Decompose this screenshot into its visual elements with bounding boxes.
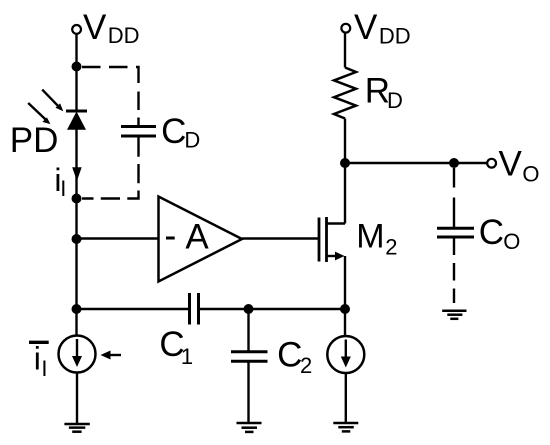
wire stub above CD xyxy=(137,118,139,128)
svg-text:M: M xyxy=(356,218,384,256)
svg-text:O: O xyxy=(522,161,539,186)
terminal VDD (top-right) xyxy=(341,24,350,33)
wire photodiode to bottom node xyxy=(75,130,77,199)
svg-text:i: i xyxy=(34,341,41,377)
current source (right) circle xyxy=(327,336,364,373)
current source iI arrow xyxy=(72,339,82,367)
svg-text:2: 2 xyxy=(300,353,312,378)
terminal VO xyxy=(487,159,496,168)
wire amp output to gate xyxy=(242,237,319,239)
capacitor C1 xyxy=(190,293,199,325)
capacitor C2 xyxy=(231,352,268,361)
minus sign in amp xyxy=(166,237,175,240)
label C1 xyxy=(159,325,193,369)
node top-left junction xyxy=(72,62,82,72)
wire node to left current source xyxy=(75,309,77,336)
wire source down to node xyxy=(344,256,346,309)
wire VDD-tr to resistor xyxy=(344,33,346,68)
wire current source to ground xyxy=(76,373,78,425)
node PD bottom junction xyxy=(72,194,82,204)
wire node to photodiode xyxy=(75,67,77,112)
wire node to amp input xyxy=(77,237,159,239)
node output junction xyxy=(449,158,459,168)
wire amp node to C1 xyxy=(77,308,190,310)
svg-text:I: I xyxy=(60,176,66,201)
ground (right) xyxy=(333,423,358,431)
svg-text:O: O xyxy=(503,229,520,254)
terminal VDD (top-left) xyxy=(72,25,81,34)
label VDD (top-right) xyxy=(354,8,411,48)
label M2 xyxy=(356,218,397,260)
wire C2 to ground xyxy=(247,361,249,423)
label CO xyxy=(479,213,521,254)
wire VDD-tl to node xyxy=(75,34,77,67)
svg-text:D: D xyxy=(184,127,200,152)
node drain junction xyxy=(340,158,350,168)
wire drain node to output node xyxy=(345,162,454,164)
label RD xyxy=(365,72,403,113)
wire drain up to output rail xyxy=(344,163,346,224)
svg-text:2: 2 xyxy=(385,234,397,259)
wire C2 node down xyxy=(247,309,249,352)
current source iI circle xyxy=(59,336,96,373)
svg-text:C: C xyxy=(479,213,504,252)
svg-text:C: C xyxy=(161,112,186,151)
ground (left) xyxy=(64,424,89,432)
wire resistor to drain node xyxy=(344,119,346,164)
resistor RD xyxy=(334,68,356,119)
label iI-bar (overline i sub I) xyxy=(29,341,49,381)
ground (CO) xyxy=(442,311,466,319)
transistor M2 source stub xyxy=(327,255,338,257)
light arrow 2 xyxy=(28,103,50,124)
svg-text:A: A xyxy=(185,217,209,256)
dashed wire CO to ground xyxy=(453,238,455,304)
op-amp A triangle xyxy=(159,197,243,282)
svg-text:1: 1 xyxy=(181,344,193,369)
node amp input junction xyxy=(72,234,82,244)
label VO xyxy=(499,144,540,186)
svg-text:DD: DD xyxy=(379,23,411,48)
node source junction xyxy=(340,304,350,314)
wire C2 node to source node xyxy=(249,308,346,310)
node bottom-left junction xyxy=(72,304,82,314)
svg-text:V: V xyxy=(354,8,378,47)
transistor M2 gate bar xyxy=(318,218,321,262)
current source (right) arrow xyxy=(341,340,351,368)
control arrow at iI source xyxy=(101,351,122,360)
light arrow 1 xyxy=(42,90,63,112)
dashed box lower-right and bottom wire xyxy=(82,138,139,199)
wire stub above CO xyxy=(453,198,455,228)
svg-text:PD: PD xyxy=(10,121,59,160)
photodiode PD triangle xyxy=(67,112,86,130)
svg-text:V: V xyxy=(83,8,107,47)
label CD xyxy=(161,112,200,153)
capacitor CO xyxy=(437,228,474,237)
transistor M2 drain stub xyxy=(327,222,346,224)
label VDD (top-left) xyxy=(83,8,140,48)
svg-text:C: C xyxy=(277,335,302,374)
transistor M2 channel bar xyxy=(325,217,328,262)
photodiode PD cathode bar xyxy=(66,110,87,113)
svg-text:DD: DD xyxy=(108,23,140,48)
label iI (photocurrent) xyxy=(54,162,66,201)
wire output node to terminal xyxy=(454,162,487,164)
ground (C2) xyxy=(237,423,262,432)
label C2 xyxy=(277,335,312,378)
capacitor CD xyxy=(121,127,156,137)
svg-text:I: I xyxy=(41,356,47,381)
svg-text:V: V xyxy=(499,144,523,183)
transistor M2 source arrow xyxy=(335,252,345,261)
svg-text:D: D xyxy=(387,88,403,113)
wire PD node to amp node xyxy=(75,199,77,310)
dashed box top and upper-right wire xyxy=(82,67,139,119)
dashed wire output node to CO xyxy=(453,168,455,188)
wire source node to right current source xyxy=(344,309,346,336)
wire C1 to C2 node xyxy=(199,308,249,310)
wire right current source to ground xyxy=(345,373,347,423)
node C2 junction xyxy=(244,304,254,314)
current direction arrow iI xyxy=(72,167,82,181)
